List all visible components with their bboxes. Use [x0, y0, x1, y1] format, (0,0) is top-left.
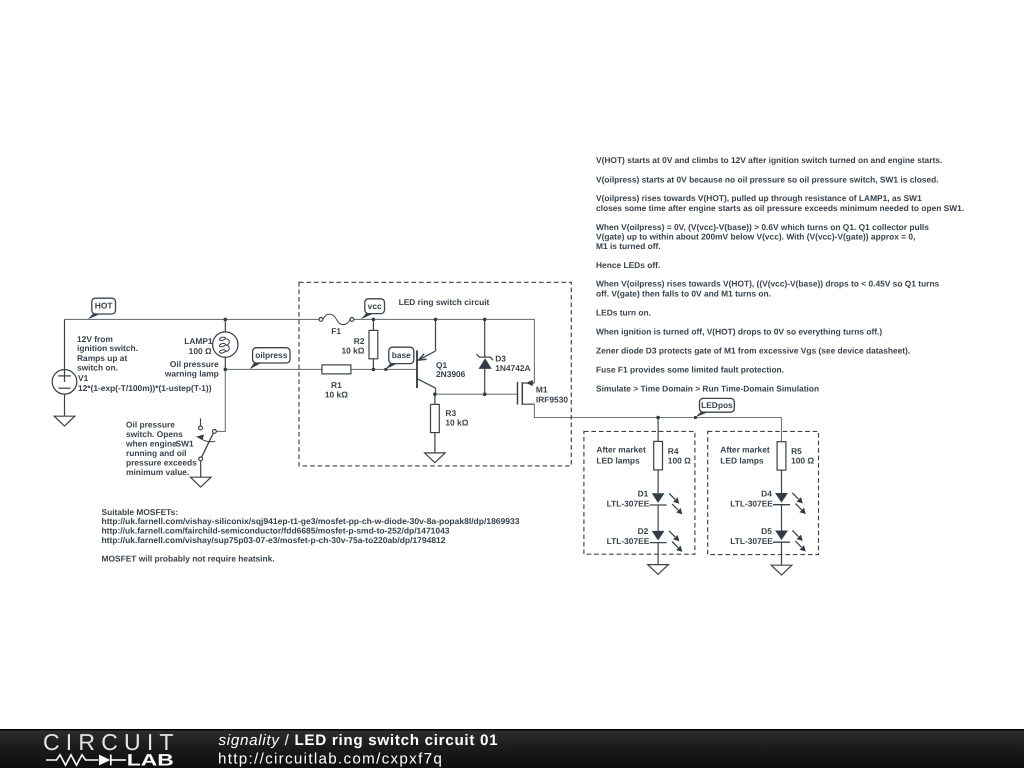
wire HOT rail (V1 to fuse): [65, 318, 319, 320]
wire D1 to D2: [657, 505, 659, 531]
net flag oilpress: [250, 348, 290, 370]
svg-text:IRF9530: IRF9530: [536, 394, 568, 404]
svg-text:2N3906: 2N3906: [436, 369, 466, 379]
resistor R2: [341, 330, 377, 358]
svg-text:F1: F1: [331, 326, 341, 336]
svg-text:R5: R5: [791, 446, 802, 456]
svg-text:1N4742A: 1N4742A: [495, 363, 530, 373]
svg-text:After market: After market: [596, 444, 646, 454]
wire Q1 collector to gate node: [435, 388, 437, 394]
CircuitLab logo: [43, 729, 180, 768]
MOSFET M1 (IRF9530): [518, 380, 535, 405]
resistor R3: [431, 404, 469, 432]
svg-text:Hence LEDs off.: Hence LEDs off.: [596, 260, 660, 270]
wire D2 to ground: [657, 543, 659, 565]
svg-text:LED lamps: LED lamps: [720, 455, 764, 465]
svg-text:D1: D1: [638, 489, 649, 499]
svg-text:10 kΩ: 10 kΩ: [341, 346, 364, 356]
ground (below D2): [648, 565, 669, 575]
svg-text:HOT: HOT: [95, 301, 114, 311]
aftermarket LED box 1: [584, 431, 695, 554]
svg-text:LED ring switch circuit: LED ring switch circuit: [399, 297, 490, 307]
svg-text:M1 is turned off.: M1 is turned off.: [596, 241, 661, 251]
svg-text:100 Ω: 100 Ω: [791, 456, 814, 466]
svg-text:switch. Opens: switch. Opens: [126, 429, 183, 439]
svg-text:100 Ω: 100 Ω: [189, 346, 212, 356]
wire R2 leads: [372, 319, 374, 369]
svg-text:LTL-307EE: LTL-307EE: [607, 536, 650, 546]
annotation notes (bottom): [102, 507, 520, 563]
svg-text:LTL-307EE: LTL-307EE: [730, 536, 773, 546]
resistor R1: [322, 365, 351, 400]
svg-text:100 Ω: 100 Ω: [668, 456, 691, 466]
wire gate rail (collector to M1 gate): [435, 393, 518, 395]
ground (below V1): [54, 416, 75, 426]
label D1 LTL-307EE: [607, 489, 650, 509]
net flag vcc: [361, 299, 385, 319]
net flag HOT: [88, 298, 116, 319]
wire SW1 to ground: [200, 461, 202, 477]
resistor R5: [777, 442, 814, 470]
svg-text:D4: D4: [761, 489, 772, 499]
junction dots on LEDpos rail: [656, 416, 697, 420]
svg-text:D2: D2: [638, 526, 649, 536]
aftermarket LED box 2: [708, 431, 819, 554]
svg-text:D5: D5: [761, 526, 772, 536]
svg-text:pressure exceeds: pressure exceeds: [126, 458, 197, 468]
switch SW1: [196, 418, 217, 460]
annotation: oil pressure warning lamp: [164, 359, 219, 379]
svg-text:R1: R1: [331, 380, 342, 390]
wire D5 to ground: [781, 542, 783, 565]
ground (below R3): [425, 453, 446, 463]
wire oilpress rail (lamp to R1): [225, 368, 322, 370]
label D5 LTL-307EE: [730, 526, 773, 546]
wire LAMP1 leads: [224, 319, 226, 369]
LED D4: [773, 493, 806, 514]
svg-text:vcc: vcc: [368, 301, 382, 311]
svg-text:V(oilpress) rises towards V(HO: V(oilpress) rises towards V(HOT), pulled…: [596, 193, 922, 203]
wire LEDpos rail down to R5: [781, 418, 783, 442]
svg-text:Oil pressure: Oil pressure: [126, 420, 175, 430]
svg-text:warning lamp: warning lamp: [164, 369, 219, 379]
svg-text:V1: V1: [78, 373, 89, 383]
wire D3 leads: [484, 319, 486, 394]
junction dots on gate rail: [433, 392, 486, 396]
svg-text:10 kΩ: 10 kΩ: [325, 390, 348, 400]
svg-text:Fuse F1 provides some limited: Fuse F1 provides some limited fault prot…: [596, 365, 784, 375]
svg-text:running and oil: running and oil: [126, 448, 186, 458]
wire R3 leads: [434, 394, 436, 453]
fuse F1: [319, 314, 354, 325]
annotation: oil pressure switch: [125, 420, 197, 478]
svg-text:When V(oilpress) = 0V, (V(vcc): When V(oilpress) = 0V, (V(vcc)-V(base)) …: [596, 222, 929, 232]
svg-text:Oil pressure: Oil pressure: [170, 359, 219, 369]
svg-text:http://uk.farnell.com/vishay/s: http://uk.farnell.com/vishay/sup75p03-07…: [102, 535, 446, 545]
svg-text:V(oilpress) starts at 0V becau: V(oilpress) starts at 0V because no oil …: [596, 175, 939, 185]
net flag LEDpos: [695, 398, 734, 417]
svg-text:10 kΩ: 10 kΩ: [445, 418, 468, 428]
svg-text:http://uk.farnell.com/vishay-s: http://uk.farnell.com/vishay-siliconix/s…: [102, 516, 520, 526]
label Q1 2N3906: [436, 360, 466, 379]
annotation: 12V from ignition switch: [77, 334, 138, 373]
svg-text:LED lamps: LED lamps: [596, 455, 640, 465]
svg-text:LEDs turn on.: LEDs turn on.: [596, 308, 651, 318]
wire M1 drain to LEDpos rail: [534, 404, 781, 417]
net flag base: [385, 347, 413, 369]
svg-text:off. V(gate) then falls to 0V: off. V(gate) then falls to 0V and M1 tur…: [596, 289, 771, 299]
svg-text:LTL-307EE: LTL-307EE: [607, 498, 650, 508]
svg-text:base: base: [392, 350, 411, 360]
LED D5: [773, 531, 806, 552]
svg-text:After market: After market: [720, 444, 770, 454]
label SW1: [176, 439, 194, 449]
footer title: [219, 732, 499, 749]
junction dots on vcc rail: [224, 318, 487, 322]
wire LAMP1 to SW1: [216, 369, 225, 431]
resistor R4: [654, 441, 691, 470]
svg-text:Ramps up at: Ramps up at: [77, 353, 127, 363]
label M1 IRF9530: [536, 385, 568, 405]
footer url: [218, 750, 443, 767]
label D4 LTL-307EE: [730, 489, 773, 509]
transistor Q1 (PNP 2N3906): [417, 350, 436, 388]
svg-text:MOSFET will probably not requi: MOSFET will probably not require heatsin…: [102, 554, 275, 564]
wire Q1 emitter to vcc: [435, 319, 437, 351]
svg-text:oilpress: oilpress: [255, 350, 287, 360]
svg-text:12*(1-exp(-T/100m))*(1-ustep(T: 12*(1-exp(-T/100m))*(1-ustep(T-1)): [78, 383, 212, 393]
svg-text:V(HOT) starts at 0V and climbs: V(HOT) starts at 0V and climbs to 12V af…: [596, 155, 942, 165]
label F1: [331, 326, 341, 336]
lamp LAMP1: [213, 332, 238, 357]
wire R4 tap: [657, 418, 659, 442]
svg-text:R4: R4: [668, 446, 679, 456]
subcircuit box: LED ring switch circuit: [299, 282, 571, 466]
svg-text:R2: R2: [354, 336, 365, 346]
LED D1: [650, 493, 683, 514]
svg-text:minimum value.: minimum value.: [126, 467, 189, 477]
value label V1 expression: [78, 383, 212, 393]
svg-text:ignition switch.: ignition switch.: [77, 343, 138, 353]
wire D4 to D5: [781, 505, 783, 531]
wire vcc rail (fuse to M1 source): [354, 319, 535, 383]
svg-text:Simulate > Time Domain > Run T: Simulate > Time Domain > Run Time-Domain…: [596, 384, 819, 394]
label D2 LTL-307EE: [607, 526, 650, 546]
ground (below D5): [771, 565, 792, 575]
svg-text:http://circuitlab.com/cxpxf7q: http://circuitlab.com/cxpxf7q: [218, 750, 443, 767]
svg-text:M1: M1: [536, 385, 548, 395]
svg-text:R3: R3: [445, 408, 456, 418]
label D3 1N4742A: [495, 354, 530, 374]
LED D2: [650, 531, 683, 552]
wire base rail (R1 to Q1 base): [351, 368, 417, 370]
svg-text:When ignition is turned off, V: When ignition is turned off, V(HOT) drop…: [596, 327, 882, 337]
svg-text:When V(oilpress) rises towards: When V(oilpress) rises towards V(HOT), (…: [596, 279, 940, 289]
label LAMP1 value: [184, 336, 213, 356]
svg-text:signality / LED ring switch ci: signality / LED ring switch circuit 01: [219, 732, 499, 749]
svg-text:LEDpos: LEDpos: [701, 400, 733, 410]
wire R4 to D1: [657, 470, 659, 493]
svg-text:LAMP1: LAMP1: [184, 336, 213, 346]
svg-text:LAB: LAB: [127, 752, 174, 768]
svg-text:closes some time after engine: closes some time after engine starts as …: [596, 203, 964, 213]
svg-text:LTL-307EE: LTL-307EE: [730, 498, 773, 508]
svg-text:SW1: SW1: [176, 439, 194, 449]
wire V1 bottom lead: [64, 394, 66, 416]
annotation notes (right): [596, 155, 964, 394]
svg-text:when engine: when engine: [125, 439, 177, 449]
svg-text:V(gate) up to within about 200: V(gate) up to within about 200mV below V…: [596, 232, 915, 242]
wire R5 to D4: [781, 470, 783, 493]
svg-text:Zener diode D3 protects gate o: Zener diode D3 protects gate of M1 from …: [596, 346, 910, 356]
zener diode D3: [477, 354, 493, 369]
svg-text:http://uk.farnell.com/fairchil: http://uk.farnell.com/fairchild-semicond…: [102, 525, 450, 535]
junction dots on oilpress/base rail: [224, 368, 388, 372]
svg-text:switch on.: switch on.: [77, 363, 118, 373]
wire V1 top lead: [64, 319, 66, 369]
svg-text:D3: D3: [495, 354, 506, 364]
ground (below SW1): [190, 477, 211, 487]
voltage source V1: [52, 370, 88, 395]
